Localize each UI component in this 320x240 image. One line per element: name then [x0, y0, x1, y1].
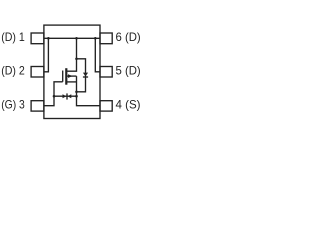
mosfet M1 channel line [65, 68, 67, 85]
package body outline [44, 25, 100, 118]
pin 5 box [100, 67, 112, 78]
svg-text:6 (D): 6 (D) [116, 31, 141, 44]
wire body-diode branch [77, 59, 86, 92]
mosfet M1 middle body stub [66, 75, 76, 77]
zener Z center cathode bar [66, 93, 68, 99]
junction bus-pin2 [47, 37, 50, 40]
zener Z right triangle [68, 94, 72, 98]
pin 2 box [31, 67, 44, 78]
pin 4 box [100, 101, 112, 111]
svg-text:(D) 1: (D) 1 [1, 31, 25, 44]
mosfet M1 source stub [66, 81, 76, 83]
pin 1 box [31, 33, 44, 44]
wire drain rail to mosfet drain stub [66, 38, 76, 71]
pin 6 box [100, 33, 112, 44]
junction gate lead-zener [53, 95, 56, 98]
mosfet M1 gate line [62, 71, 64, 82]
junction bus-pin5 [94, 37, 97, 40]
mosfet M1 body arrow [68, 74, 73, 78]
wire gate lead to pin3 [44, 82, 63, 106]
junction bus-drain rail [75, 37, 78, 40]
junction source rail-diode return [75, 91, 78, 94]
wire zener pair gate to source [54, 95, 77, 97]
pin 3 box [31, 101, 44, 111]
wire pin5 branch to bus [95, 38, 100, 72]
body diode D1 triangle [83, 73, 88, 77]
svg-text:5 (D): 5 (D) [116, 65, 141, 78]
junction drain rail-diode branch [75, 58, 78, 61]
junction source rail-zener [75, 95, 78, 98]
svg-text:(G) 3: (G) 3 [1, 98, 25, 111]
wire drain bus pin1 to pin6 [44, 37, 100, 39]
svg-text:(D) 2: (D) 2 [1, 65, 25, 78]
wire source rail down to pin4 [77, 76, 101, 106]
zener Z left triangle [63, 94, 67, 98]
body diode D1 cathode bar [83, 76, 88, 78]
wire pin2 branch to bus [44, 38, 49, 72]
svg-text:4 (S): 4 (S) [116, 98, 141, 111]
